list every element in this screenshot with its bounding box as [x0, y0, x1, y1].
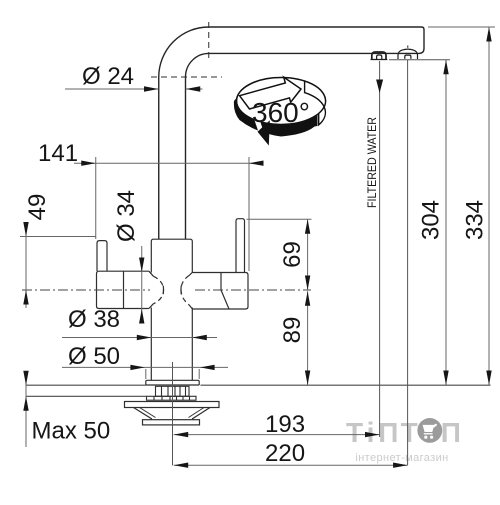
- left handle axis line: [22, 289, 150, 291]
- filtered water outlet (small): [371, 52, 388, 60]
- dimension Max 50: [23, 371, 110, 447]
- left handle lever: [97, 241, 107, 271]
- svg-text:141: 141: [38, 140, 78, 167]
- dimension 304: [418, 60, 449, 385]
- svg-text:334: 334: [462, 200, 489, 240]
- watermark logo TIPTOP: [346, 417, 461, 464]
- svg-text:FILTERED WATER: FILTERED WATER: [365, 117, 379, 208]
- threaded shank: [156, 386, 190, 396]
- svg-text:69: 69: [279, 241, 306, 268]
- countertop surface line: [26, 384, 491, 386]
- svg-text:193: 193: [265, 411, 305, 438]
- svg-text:інтернет-магазин: інтернет-магазин: [355, 452, 448, 464]
- dimension D24: [65, 63, 203, 92]
- right handle lever: [236, 219, 245, 273]
- washer plate: [147, 396, 197, 400]
- dimension D50: [62, 343, 228, 379]
- outlet base line / 304 top extension: [389, 59, 450, 61]
- mounting skirt + lower plate: [134, 408, 211, 425]
- svg-text:П: П: [378, 417, 398, 448]
- dimension D34: [113, 190, 144, 324]
- spout bend dashed lines: [151, 22, 222, 77]
- dimension 141: [38, 140, 264, 271]
- trim ring disc: [146, 380, 199, 385]
- base column: [151, 308, 192, 381]
- svg-text:304: 304: [418, 200, 445, 240]
- vertical centerline of faucet: [172, 362, 174, 465]
- svg-text:49: 49: [24, 194, 51, 221]
- dimension 334: [428, 27, 495, 385]
- right handle axis line: [195, 289, 311, 291]
- svg-text:Max 50: Max 50: [32, 418, 111, 445]
- svg-text:Т: Т: [346, 417, 363, 448]
- svg-text:Т: Т: [401, 417, 418, 448]
- line under big aerator down to 220: [407, 60, 409, 465]
- dimension 69: [247, 219, 312, 290]
- svg-text:360°: 360°: [252, 97, 310, 128]
- dimension 89: [279, 291, 310, 385]
- body step at pipe base: [151, 239, 192, 272]
- svg-text:220: 220: [265, 440, 305, 467]
- faucet spout outline: [159, 27, 424, 239]
- filtered water leader line: [365, 61, 383, 437]
- svg-text:Ø 50: Ø 50: [68, 343, 120, 370]
- dimension 49: [20, 194, 96, 308]
- right handle body: [192, 273, 248, 310]
- 360 degree rotation symbol: [234, 74, 326, 146]
- left handle body: [97, 271, 149, 308]
- svg-text:Ø 38: Ø 38: [68, 306, 120, 333]
- dimension D38: [62, 306, 217, 340]
- dimension 193: [174, 411, 380, 438]
- ball joint arcs (dashed): [149, 271, 192, 309]
- svg-text:89: 89: [279, 317, 306, 344]
- dimension 220: [174, 440, 408, 468]
- countertop bottom line: [26, 395, 147, 397]
- main aerator outlet (dome): [398, 46, 418, 60]
- svg-text:П: П: [441, 417, 461, 448]
- svg-text:Ø 24: Ø 24: [82, 63, 134, 90]
- svg-text:Ø 34: Ø 34: [113, 190, 140, 242]
- mounting plate (wide): [125, 402, 220, 408]
